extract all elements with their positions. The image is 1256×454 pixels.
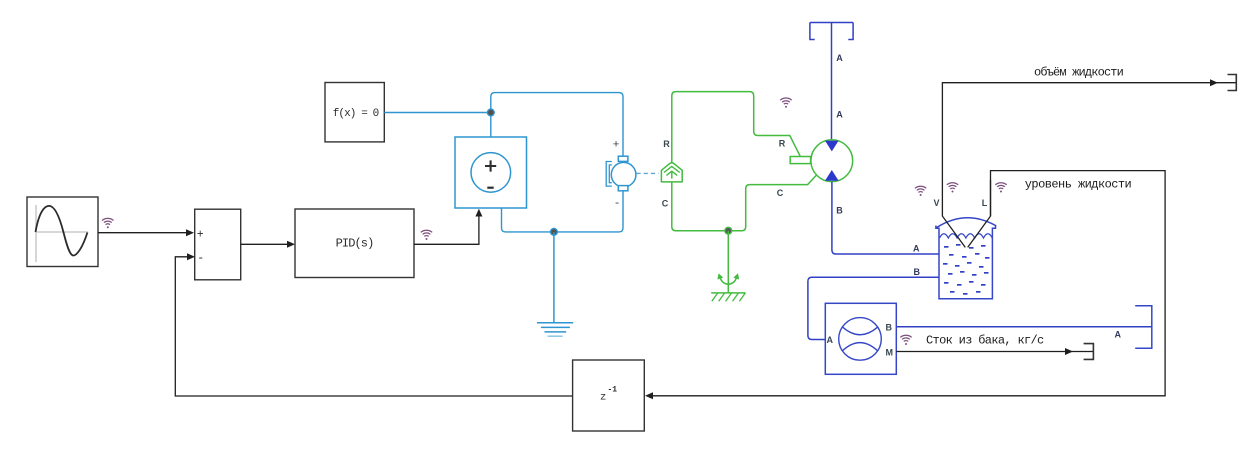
wifi badge sine output xyxy=(102,218,113,228)
unit delay block z^-1 xyxy=(573,360,645,431)
hydraulic wire tank B to flow sensor A xyxy=(808,277,939,339)
blue solver wire xyxy=(384,112,491,114)
rotational motion sensor (pentagon) xyxy=(661,163,682,182)
electrical wire top loop xyxy=(491,93,623,157)
svg-text:B: B xyxy=(886,323,893,333)
signal wire L down to level line xyxy=(968,180,991,247)
svg-text:C: C xyxy=(777,188,784,198)
svg-text:объём жидкости: объём жидкости xyxy=(1034,66,1124,80)
wifi badge tank L xyxy=(995,183,1006,193)
electrical ground xyxy=(537,232,573,336)
controlled voltage source block xyxy=(455,137,527,208)
green wire C loop xyxy=(672,175,817,231)
svg-text:A: A xyxy=(1115,330,1122,340)
wifi badge sensor M xyxy=(900,335,911,345)
junction node at solver wire xyxy=(487,109,494,116)
signal wire V to volume terminator xyxy=(942,79,1236,247)
wire sum to PID xyxy=(241,241,295,248)
algebraic constraint solver block f(x)=0 xyxy=(325,83,384,142)
hydraulic pump xyxy=(790,140,852,182)
wifi badge PID output xyxy=(421,230,432,240)
flow rate sensor block xyxy=(825,303,896,374)
svg-text:R: R xyxy=(663,139,670,149)
svg-text:f(x) = 0: f(x) = 0 xyxy=(333,108,379,120)
wire sine to sum xyxy=(98,229,194,236)
wifi badge green domain xyxy=(780,98,791,108)
DC motor xyxy=(606,156,636,191)
svg-text:Сток из бака, кг/с: Сток из бака, кг/с xyxy=(926,334,1044,348)
hydraulic wire pump B to tank A xyxy=(832,182,939,254)
svg-text:PID(s): PID(s) xyxy=(336,237,374,251)
svg-text:-: - xyxy=(197,252,204,265)
junction node at ground branch xyxy=(551,229,558,236)
svg-text:-: - xyxy=(614,198,621,210)
svg-text:z: z xyxy=(600,392,606,404)
svg-text:R: R xyxy=(779,139,786,149)
hydraulic reservoir xyxy=(810,23,853,141)
wire PID to voltage source control xyxy=(414,209,482,245)
feedback wire from level line into z-1 xyxy=(645,171,1165,400)
wifi badge tank V xyxy=(947,183,958,193)
svg-text:M: M xyxy=(886,348,894,358)
terminator flow xyxy=(1084,344,1094,360)
svg-text:A: A xyxy=(827,335,834,345)
feedback wire from z-1 to sum minus xyxy=(175,253,573,396)
svg-text:C: C xyxy=(662,199,669,209)
sine wave source block xyxy=(27,197,98,267)
green junction node xyxy=(725,227,732,234)
terminator volume xyxy=(1228,75,1237,91)
svg-text:уровень жидкости: уровень жидкости xyxy=(1025,178,1132,192)
svg-text:B: B xyxy=(836,206,843,216)
hydraulic wire sensor B to connection bracket xyxy=(896,326,1152,328)
svg-text:A: A xyxy=(836,53,843,63)
tank block xyxy=(936,218,996,299)
PID controller block xyxy=(295,209,414,278)
connection bracket A xyxy=(1135,306,1152,349)
tank liquid dashes xyxy=(943,244,990,295)
sum block xyxy=(195,209,241,280)
svg-text:+: + xyxy=(613,139,620,151)
svg-text:L: L xyxy=(982,198,988,208)
wifi badge left of tank xyxy=(915,186,926,196)
svg-text:B: B xyxy=(914,267,921,277)
dashed motor-sensor connection xyxy=(637,172,659,174)
green wire R loop xyxy=(672,92,801,164)
signal wire M to terminator xyxy=(896,348,1093,355)
svg-text:A: A xyxy=(913,244,920,254)
electrical wire bottom loop xyxy=(502,191,624,232)
svg-text:V: V xyxy=(933,198,939,208)
svg-text:+: + xyxy=(197,229,204,242)
svg-text:A: A xyxy=(836,110,843,120)
mechanical rotational reference xyxy=(711,231,745,302)
svg-text:-1: -1 xyxy=(608,385,618,394)
